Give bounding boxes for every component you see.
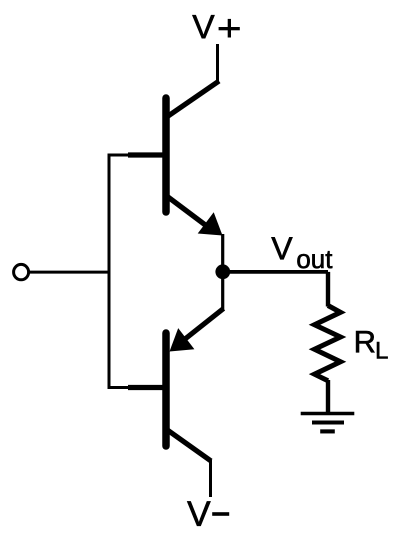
transistor Q1 (NPN) base lead	[128, 152, 165, 157]
transistor Q2 (PNP) base bar	[162, 333, 170, 446]
resistor RL zigzag	[315, 306, 341, 381]
wire Q1 emitter to output node	[221, 234, 224, 271]
resistor label RL	[356, 331, 374, 352]
ground symbol bottom bar	[320, 429, 335, 433]
wire Q2 collector to V-	[209, 460, 212, 497]
transistor Q1 (NPN) collector lead	[166, 81, 219, 118]
wire input to base rail	[30, 271, 110, 274]
output label Vout	[271, 237, 292, 259]
transistor Q2 (PNP) emitter arrowhead	[170, 328, 195, 351]
wire resistor bottom lead	[326, 380, 330, 414]
wire output node to load resistor	[229, 270, 328, 274]
wire base rail connecting Q1 and Q2 bases	[109, 155, 130, 388]
input terminal	[14, 264, 29, 279]
transistor Q2 (PNP) collector lead	[166, 429, 211, 461]
ground symbol middle bar	[312, 420, 344, 424]
transistor Q2 (PNP) emitter lead	[180, 309, 224, 344]
wire resistor top lead	[326, 272, 330, 307]
wire V+ to Q1 collector	[216, 44, 219, 82]
wire output node to Q2 emitter	[221, 278, 224, 310]
supply label V+	[192, 15, 214, 38]
transistor Q1 (NPN) emitter arrowhead	[198, 212, 223, 235]
ground symbol top bar	[301, 412, 355, 416]
transistor Q1 (NPN) emitter lead	[166, 196, 214, 232]
minus sign of V-	[212, 512, 229, 516]
transistor Q2 (PNP) base lead	[128, 385, 165, 390]
supply label V-	[187, 501, 210, 525]
node output junction dot	[215, 264, 230, 279]
transistor Q1 (NPN) base bar	[162, 98, 170, 212]
plus sign of V+	[219, 27, 240, 30]
